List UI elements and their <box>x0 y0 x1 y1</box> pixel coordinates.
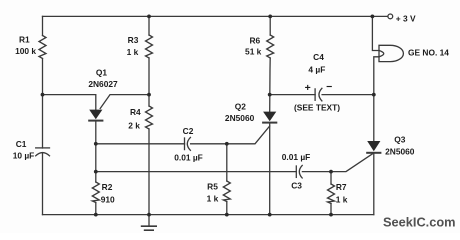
svg-text:R1: R1 <box>19 34 30 44</box>
node Q1 cathode row D <box>94 170 98 174</box>
node R4 bottom rail / ground <box>147 213 151 217</box>
wire top rail +3V <box>43 15 388 17</box>
svg-text:2N5060: 2N5060 <box>225 113 255 123</box>
wire Q3 cathode to rail corner <box>373 153 375 215</box>
resistor R7 <box>328 184 335 204</box>
wire R6 to Q2 <box>269 58 272 112</box>
svg-text:2N5060: 2N5060 <box>385 146 415 156</box>
capacitor C3 <box>296 165 302 178</box>
svg-text:1 k: 1 k <box>336 194 348 204</box>
svg-text:R7: R7 <box>336 182 347 192</box>
wire row E C4 left <box>270 94 315 96</box>
wire Q1 cathode <box>95 121 97 182</box>
wire R3 to node <box>148 58 150 95</box>
wire R4 to rail <box>148 129 150 215</box>
resistor R1 <box>39 36 46 59</box>
svg-text:10 µF: 10 µF <box>13 151 35 161</box>
svg-text:C1: C1 <box>16 139 27 149</box>
svg-text:R5: R5 <box>207 182 218 192</box>
wire Q1 anode branch <box>43 95 96 110</box>
wire Q2 cathode to rail <box>269 123 271 215</box>
wire R7 column <box>330 172 332 184</box>
thyristor Q3 2N5060 <box>367 141 380 153</box>
svg-text:R3: R3 <box>128 35 139 45</box>
resistor R6 <box>267 35 274 58</box>
wire row E C4 right <box>322 94 374 96</box>
svg-text:(SEE TEXT): (SEE TEXT) <box>294 103 340 113</box>
svg-text:−: − <box>326 81 332 93</box>
wire R4 column <box>148 95 150 106</box>
wire R2 to rail <box>95 203 97 215</box>
svg-text:C3: C3 <box>291 181 302 191</box>
resistor R5 <box>223 181 230 202</box>
node C4 / Q3 anode <box>372 93 376 97</box>
node Q2 cathode rail <box>268 213 272 217</box>
svg-text:100 k: 100 k <box>15 46 36 56</box>
node dots <box>41 15 376 217</box>
resistor R3 <box>146 35 153 58</box>
node R5 bottom rail <box>225 213 229 217</box>
svg-text:Q1: Q1 <box>96 68 108 78</box>
node Q1 cathode row C <box>94 142 98 146</box>
svg-text:51 k: 51 k <box>245 47 262 57</box>
node C2 / R5 / Q2 gate <box>225 142 229 146</box>
svg-text:+ 3 V: + 3 V <box>396 14 416 24</box>
node C3 / R7 / Q3 gate <box>329 170 333 174</box>
wire R5 to rail <box>226 202 228 215</box>
node lamp top rail <box>371 15 375 19</box>
svg-text:+: + <box>305 82 311 94</box>
terminal +3V <box>388 14 393 19</box>
wire left column middle <box>42 59 44 149</box>
resistor R2 <box>92 182 99 203</box>
wire lamp bottom lead <box>374 57 379 95</box>
ground <box>142 215 157 231</box>
wire R3 column top <box>148 16 150 35</box>
svg-text:C2: C2 <box>183 126 194 136</box>
lamp GE NO. 14 <box>379 45 403 61</box>
wire bottom rail <box>43 214 374 216</box>
node R6 top rail <box>268 15 272 19</box>
svg-text:R4: R4 <box>130 107 141 117</box>
wire R7 to rail <box>330 204 332 215</box>
svg-text:910: 910 <box>101 195 115 205</box>
node left column / Q1 anode branch <box>41 93 45 97</box>
node R3 top rail <box>147 15 151 19</box>
capacitor C4 <box>315 88 322 101</box>
svg-text:C4: C4 <box>313 52 324 62</box>
wire row D C3 right and Q3 gate <box>302 154 372 172</box>
wire row D C3 left <box>96 171 296 173</box>
capacitor C2 <box>185 137 191 150</box>
svg-text:Q2: Q2 <box>235 102 247 112</box>
wire R6 column top <box>269 16 271 35</box>
node R7 bottom rail <box>329 213 333 217</box>
svg-text:1 k: 1 k <box>207 193 219 203</box>
svg-text:1 k: 1 k <box>127 47 139 57</box>
svg-text:2N6027: 2N6027 <box>88 79 118 89</box>
svg-text:GE NO. 14: GE NO. 14 <box>408 48 449 58</box>
node R2 bottom rail <box>94 213 98 217</box>
wire R5 column <box>226 144 228 181</box>
wire row C left <box>96 143 185 145</box>
svg-text:2 k: 2 k <box>128 121 140 131</box>
node Q1 gate / R3-R4 <box>147 93 151 97</box>
thyristor Q2 2N5060 <box>263 112 276 123</box>
wire row C right <box>191 143 227 145</box>
wire Q2 gate <box>227 126 270 144</box>
svg-text:R2: R2 <box>102 182 113 192</box>
node Q2 anode / C4 <box>268 93 272 97</box>
svg-text:Q3: Q3 <box>394 135 406 145</box>
wire left column bottom <box>42 153 44 214</box>
transistor Q1 2N6027 <box>89 95 149 121</box>
svg-text:R6: R6 <box>249 35 260 45</box>
wire Q3 anode <box>373 95 375 141</box>
capacitor C1 <box>36 148 50 156</box>
svg-text:4 µF: 4 µF <box>308 65 325 75</box>
resistor R4 <box>146 106 153 129</box>
svg-text:0.01 µF: 0.01 µF <box>282 152 311 162</box>
wire left column top <box>42 16 44 35</box>
svg-text:0.01 µF: 0.01 µF <box>174 153 203 163</box>
svg-text:SeekIC.com: SeekIC.com <box>383 215 456 230</box>
lamp branch wire from top rail <box>372 16 379 50</box>
